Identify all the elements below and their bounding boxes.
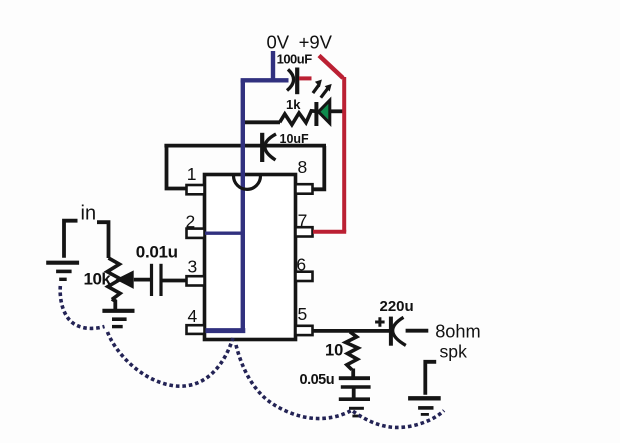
svg-text:8: 8 xyxy=(298,157,308,177)
svg-text:100uF: 100uF xyxy=(277,51,313,66)
svg-text:spk: spk xyxy=(440,342,468,362)
svg-text:0V: 0V xyxy=(267,32,290,53)
svg-text:10k: 10k xyxy=(84,270,112,289)
svg-text:5: 5 xyxy=(298,304,308,324)
svg-text:220u: 220u xyxy=(380,298,414,315)
svg-text:8ohm: 8ohm xyxy=(435,322,481,342)
svg-text:0.05u: 0.05u xyxy=(300,372,335,388)
svg-text:1: 1 xyxy=(187,164,197,184)
svg-text:+9V: +9V xyxy=(299,32,333,53)
svg-text:2: 2 xyxy=(186,212,196,232)
svg-text:4: 4 xyxy=(188,306,198,326)
svg-text:3: 3 xyxy=(188,256,198,276)
svg-text:6: 6 xyxy=(296,255,306,275)
svg-text:0.01u: 0.01u xyxy=(136,243,178,262)
svg-text:10uF: 10uF xyxy=(280,132,310,146)
svg-text:in: in xyxy=(81,202,97,224)
svg-text:10: 10 xyxy=(325,342,343,360)
svg-text:7: 7 xyxy=(298,211,308,231)
svg-text:1k: 1k xyxy=(286,97,301,112)
